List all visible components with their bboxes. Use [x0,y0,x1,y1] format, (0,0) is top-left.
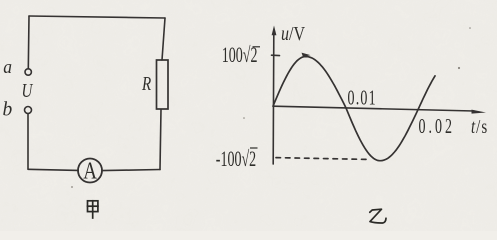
svg-text:100√2: 100√2 [222,43,258,67]
svg-text:u/V: u/V [281,23,305,45]
svg-text:A: A [83,156,97,184]
svg-text:-100√2: -100√2 [216,147,256,171]
svg-text:U: U [22,80,34,101]
svg-text:t/s: t/s [471,116,488,137]
svg-text:R: R [141,73,151,94]
svg-text:0.02: 0.02 [419,114,455,138]
svg-text:a: a [3,56,12,77]
svg-text:b: b [3,100,13,121]
svg-text:0.01: 0.01 [348,86,377,110]
